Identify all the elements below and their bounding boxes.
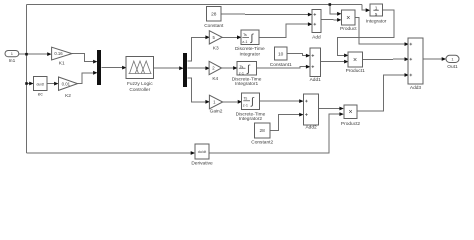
svg-text:z-1: z-1	[242, 40, 247, 44]
svg-text:Constant1: Constant1	[270, 62, 292, 68]
svg-text:du/dt: du/dt	[37, 82, 45, 86]
svg-text:28: 28	[211, 11, 217, 17]
svg-text:Product: Product	[340, 26, 357, 32]
svg-text:Add: Add	[312, 35, 321, 41]
svg-text:K3: K3	[213, 45, 219, 51]
svg-text:Product2: Product2	[341, 121, 361, 127]
svg-text:z-1: z-1	[243, 104, 248, 108]
svg-text:Fuzzy Logic: Fuzzy Logic	[127, 81, 153, 87]
svg-text:0.01: 0.01	[62, 81, 71, 86]
svg-text:Controller: Controller	[129, 87, 150, 93]
svg-text:Ts: Ts	[244, 96, 248, 100]
svg-text:In1: In1	[9, 58, 16, 64]
svg-text:du/dt: du/dt	[198, 150, 207, 154]
svg-text:K1: K1	[59, 61, 65, 67]
svg-text:Add2: Add2	[305, 125, 317, 131]
svg-text:ec: ec	[38, 93, 44, 98]
svg-text:Derivative: Derivative	[191, 160, 213, 166]
svg-text:Add1: Add1	[310, 77, 322, 83]
svg-text:K4: K4	[212, 76, 218, 82]
svg-text:K2: K2	[65, 93, 71, 99]
svg-text:Integrator: Integrator	[366, 18, 387, 24]
svg-text:Integrator1: Integrator1	[235, 81, 259, 87]
svg-text:Integrator2: Integrator2	[239, 116, 263, 122]
svg-text:Discrete-Time: Discrete-Time	[235, 46, 265, 52]
svg-text:28: 28	[260, 128, 266, 134]
svg-text:Gain2: Gain2	[210, 109, 223, 115]
svg-text:Ts: Ts	[243, 33, 247, 37]
svg-text:×: ×	[348, 109, 352, 116]
svg-text:Product1: Product1	[346, 68, 366, 74]
svg-text:Constant: Constant	[204, 23, 224, 29]
svg-text:Out1: Out1	[447, 64, 458, 70]
svg-text:0.16: 0.16	[54, 51, 63, 56]
svg-text:10: 10	[278, 51, 284, 57]
svg-text:z-1: z-1	[239, 71, 244, 75]
svg-text:×: ×	[346, 15, 350, 22]
svg-text:Integrator: Integrator	[240, 52, 261, 58]
svg-text:Constant2: Constant2	[251, 139, 273, 145]
svg-text:Add3: Add3	[410, 85, 422, 91]
svg-text:×: ×	[353, 57, 357, 64]
